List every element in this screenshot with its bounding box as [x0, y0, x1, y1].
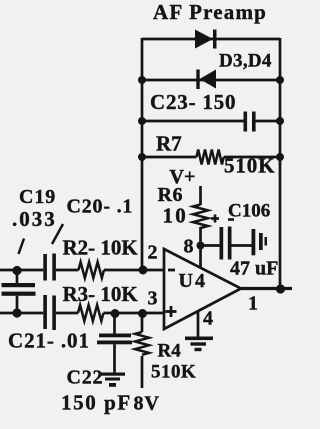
svg-text:C20- .1: C20- .1 — [67, 196, 134, 218]
junction right rail / C23 — [276, 117, 284, 125]
capacitor C19 — [2, 270, 36, 313]
op-amp U4 — [164, 249, 241, 329]
junction left rail / R7 — [138, 153, 146, 161]
wire pin8 to C106 — [201, 244, 220, 247]
svg-text:47 uF: 47 uF — [230, 258, 278, 280]
capacitor C22 — [97, 313, 132, 373]
svg-text:8V: 8V — [134, 393, 160, 415]
junction C22 node — [111, 309, 120, 318]
svg-text:C21- .01: C21- .01 — [8, 329, 90, 353]
svg-text:R3- 10K: R3- 10K — [63, 282, 139, 306]
wire C106 to ground — [232, 244, 252, 247]
junction right rail / R7 — [276, 153, 284, 161]
svg-text:AF Preamp: AF Preamp — [153, 0, 267, 24]
svg-text:8: 8 — [184, 236, 194, 258]
wire C23 branch — [142, 120, 280, 123]
junction left rail / C23 — [138, 117, 146, 125]
wire input upper rail — [0, 269, 164, 272]
leader C19 — [19, 239, 25, 255]
junction upper rail / feedback rail — [139, 266, 148, 275]
wire R4 top — [141, 313, 144, 332]
ground (sideways, C106) — [252, 229, 268, 255]
svg-text:.033: .033 — [12, 207, 57, 231]
wire R4 bottom — [141, 356, 144, 388]
label + (C106) — [211, 215, 219, 223]
capacitor C21 — [43, 295, 56, 330]
op-amp minus input mark — [168, 269, 175, 272]
wire R7 branch — [142, 156, 280, 159]
resistor R6 — [193, 205, 208, 228]
wire R6 to pin 8 — [199, 227, 202, 267]
wire left feedback rail — [141, 38, 144, 270]
svg-text:510K: 510K — [151, 362, 196, 383]
resistor R4 — [135, 332, 149, 355]
wire right feedback rail — [279, 38, 282, 289]
svg-text:C106: C106 — [228, 201, 270, 222]
svg-text:U4: U4 — [179, 270, 207, 292]
svg-text:2: 2 — [148, 242, 158, 264]
svg-text:C22: C22 — [67, 367, 104, 389]
junction left rail / D4 — [138, 76, 146, 84]
diode D4 — [196, 70, 216, 90]
op-amp plus input mark — [166, 306, 177, 317]
svg-text:D3,D4: D3,D4 — [219, 51, 272, 72]
label - (C106) — [228, 218, 234, 221]
junction input node lower — [12, 308, 21, 317]
wire input lower rail — [0, 312, 164, 315]
svg-text:C19: C19 — [19, 186, 56, 208]
ground (pin 4) — [185, 337, 213, 352]
wire top feedback (D3 branch) — [142, 38, 280, 41]
junction output / right rail — [276, 284, 285, 293]
junction input node upper — [12, 266, 21, 275]
wire pin 4 — [197, 311, 200, 337]
resistor R2 — [79, 262, 104, 278]
wire D4 branch — [142, 79, 280, 82]
junction right rail / D4 — [276, 76, 284, 84]
svg-text:1: 1 — [248, 293, 258, 315]
capacitor C23 — [244, 112, 256, 132]
capacitor C20 — [43, 254, 56, 281]
resistor R7 — [197, 150, 224, 165]
leader C20 — [52, 224, 63, 244]
ground (C22) — [101, 373, 125, 387]
junction R4 node — [138, 309, 147, 318]
wire V+ to R6 — [199, 186, 202, 205]
svg-text:3: 3 — [148, 288, 158, 310]
svg-text:C23- 150: C23- 150 — [150, 90, 236, 114]
junction pin 8 node — [197, 242, 205, 250]
svg-text:R2- 10K: R2- 10K — [63, 236, 139, 260]
capacitor C106 — [220, 227, 232, 260]
resistor R3 — [78, 305, 103, 321]
svg-text:R7: R7 — [156, 132, 182, 156]
svg-text:4: 4 — [203, 308, 213, 330]
svg-text:10: 10 — [163, 204, 188, 228]
svg-text:510K: 510K — [224, 154, 275, 178]
svg-text:R4: R4 — [158, 341, 182, 362]
wire output pin 1 — [241, 287, 292, 290]
diode D3 — [195, 30, 217, 49]
svg-text:150 pF: 150 pF — [61, 391, 132, 415]
